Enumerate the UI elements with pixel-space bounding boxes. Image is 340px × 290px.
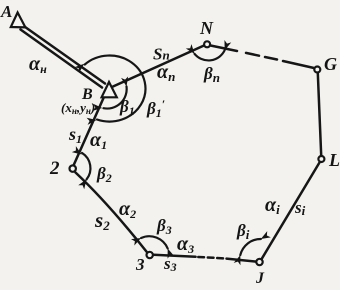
arrowhead beta3 start — [131, 235, 143, 246]
node 2 — [70, 165, 76, 171]
wire side G-L — [318, 73, 321, 156]
angle arc beta_n at node N — [195, 50, 225, 60]
node B (triangle station) — [102, 82, 117, 97]
angle arc beta2 at node 2 — [82, 153, 90, 180]
wire side 3-J with dashes — [154, 255, 256, 262]
svg-text:L: L — [328, 150, 340, 170]
svg-text:N: N — [199, 18, 214, 38]
arrowhead beta2 start — [72, 146, 84, 157]
arrowhead beta1 start — [93, 104, 103, 112]
arrowhead beta_n start — [186, 44, 198, 56]
arrowhead beta_n end — [221, 40, 231, 51]
svg-text:J: J — [255, 270, 265, 287]
node A (triangle station) — [11, 13, 26, 28]
node 3 — [147, 252, 153, 258]
wire side N-G with dashes — [211, 46, 315, 69]
arrowhead beta1-prime end (at s1 line) — [87, 116, 97, 124]
wire side s_1 B-2 — [74, 98, 104, 166]
angle arc beta_i at node J — [240, 239, 260, 255]
node L — [318, 156, 324, 162]
node J — [256, 259, 262, 265]
angle arc beta1 at B — [104, 87, 127, 109]
arrowhead beta3 end — [164, 247, 174, 258]
node G — [314, 67, 320, 73]
svg-text:(xн,yн): (xн,yн) — [61, 100, 95, 116]
wire baseline A-B double line — [21, 26, 106, 88]
angle arc beta3 at node 3 — [141, 236, 168, 248]
arrowhead beta1 end — [121, 76, 130, 87]
svg-text:A: A — [0, 2, 12, 21]
node N — [204, 41, 210, 47]
svg-text:G: G — [324, 54, 337, 74]
svg-text:3: 3 — [135, 255, 145, 274]
arrowhead beta_i start — [234, 254, 244, 265]
wire side s_2 2-3 — [76, 173, 147, 253]
wire side s_n B-N — [113, 46, 204, 87]
arrowhead beta2 end — [78, 177, 89, 189]
wire side s_i L-J — [262, 162, 320, 259]
angle arc beta1-prime (big circle at B) — [85, 56, 146, 122]
svg-text:2: 2 — [49, 158, 60, 179]
arrowhead beta_i end — [259, 231, 271, 242]
arrowhead beta1-prime start (at A-B line) — [75, 61, 87, 73]
